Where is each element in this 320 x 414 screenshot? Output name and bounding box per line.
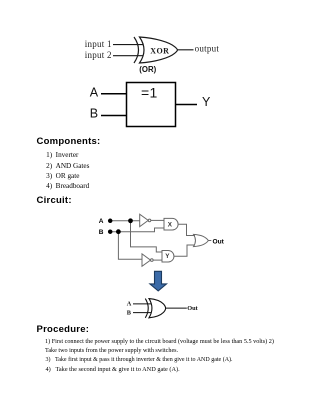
xor gate input double arc [134, 37, 139, 63]
svg-text:Y: Y [165, 253, 170, 260]
svg-text:Out: Out [213, 239, 225, 246]
xor input arc [145, 299, 148, 318]
wire NOT1 to AND X [151, 219, 164, 221]
wire input 2 [113, 55, 143, 57]
xor gate body [149, 299, 166, 318]
wire input B [133, 312, 151, 314]
svg-text:X: X [168, 221, 173, 228]
wire output Y [176, 104, 198, 106]
inverter NOT1 [140, 214, 149, 226]
heading Components: [37, 137, 101, 147]
svg-text:A: A [127, 300, 132, 307]
svg-text:input 2: input 2 [85, 50, 112, 60]
node B junction [116, 229, 121, 234]
wire X out to OR [178, 224, 195, 235]
wire input 1 [113, 44, 143, 46]
svg-text:(OR): (OR) [139, 65, 156, 74]
svg-text:input 1: input 1 [85, 39, 112, 49]
wire B input [110, 228, 164, 232]
wire NOT2 to AND Y [153, 259, 162, 261]
list item 4 Breadboard [46, 183, 89, 190]
node B terminal [108, 229, 113, 234]
svg-text:A: A [99, 218, 104, 225]
svg-text:Y: Y [202, 95, 211, 109]
blue down arrow [148, 270, 170, 293]
procedure item 3 [46, 357, 233, 363]
wire A to lower branch [131, 221, 163, 252]
wire output [177, 49, 194, 51]
xor gate U1 body [140, 37, 178, 63]
wire Y out to OR [174, 245, 195, 256]
figure 1: XOR gate (top) [80, 30, 235, 76]
inverter NOT2 [142, 254, 151, 266]
xor block U2 body (=1) [127, 83, 176, 127]
svg-text:A: A [90, 85, 99, 99]
svg-text:B: B [90, 106, 98, 120]
and gate Y [162, 251, 174, 263]
svg-text:=1: =1 [141, 84, 158, 100]
procedure line 2 [45, 348, 178, 354]
wire input A [101, 93, 127, 95]
svg-text:XOR: XOR [150, 47, 169, 56]
wire output [166, 307, 187, 309]
procedure line 1 [45, 339, 274, 345]
or gate [194, 234, 209, 246]
node A junction [128, 218, 133, 223]
procedure item 4 [46, 367, 180, 373]
list item 1 Inverter [46, 152, 78, 159]
wire Out [208, 240, 211, 242]
svg-text:B: B [127, 310, 132, 317]
wire A input [110, 220, 139, 222]
list item 2 AND Gates [46, 163, 89, 170]
figure 5: XOR gate (bottom) [124, 295, 200, 323]
heading Procedure: [37, 325, 90, 335]
figure 3: XOR logic circuit [95, 208, 230, 270]
svg-text:B: B [99, 229, 104, 236]
wire input A [133, 303, 151, 305]
list item 3 OR gate [46, 173, 79, 180]
heading Circuit: [37, 196, 72, 206]
figure 2: IEC XOR block =1 [85, 80, 215, 132]
node A terminal [108, 219, 113, 224]
svg-text:output: output [195, 44, 220, 54]
svg-text:Out: Out [187, 305, 198, 312]
wire input B [101, 115, 127, 117]
wire B to lower NOT [118, 232, 142, 260]
and gate X [164, 218, 178, 230]
